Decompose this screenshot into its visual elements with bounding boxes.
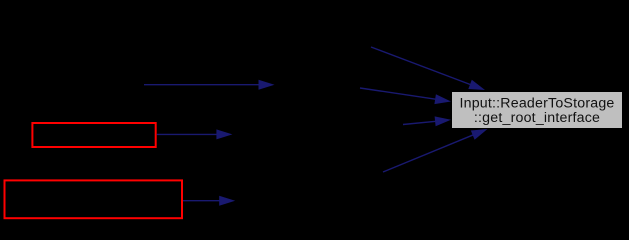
node R1: red-highlighted caller box (upper left) bbox=[32, 123, 155, 147]
wire: edge from node R1 to hidden node (middle horizontal arrow) bbox=[157, 129, 233, 139]
svg-text:::get_root_interface: ::get_root_interface bbox=[474, 110, 600, 126]
wire: edge 2 from hidden caller to node U1 left edge bbox=[360, 88, 451, 104]
wire: edge 3 from hidden caller to node U1 left edge bbox=[403, 116, 451, 126]
wire: edge from hidden caller node to hidden node (top horizontal arrow) bbox=[144, 80, 275, 90]
node R2: red-highlighted caller box (lower left) bbox=[5, 180, 183, 218]
node U1: Input::ReaderToStorage::get_root_interface (current node, grey) bbox=[452, 92, 623, 129]
wire: edge 1 from hidden caller to node U1 top edge bbox=[371, 47, 485, 90]
wire: edge from node R2 to hidden node (bottom horizontal arrow) bbox=[183, 196, 235, 206]
svg-text:Input::ReaderToStorage: Input::ReaderToStorage bbox=[459, 95, 614, 111]
wire: edge 4 from hidden caller to node U1 bottom edge bbox=[383, 129, 488, 172]
